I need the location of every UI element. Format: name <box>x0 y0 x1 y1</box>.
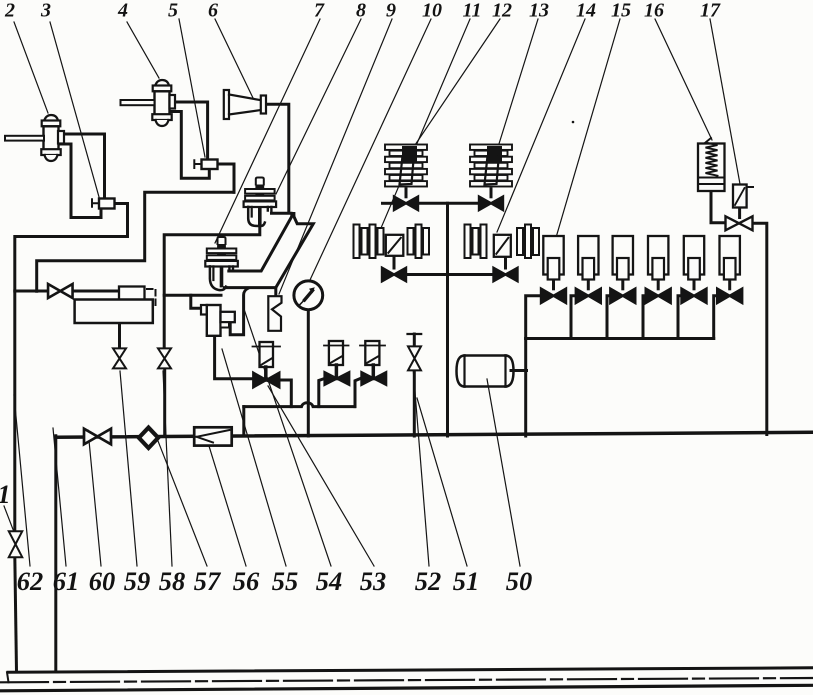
wire cylinder15-3 stem <box>621 279 624 289</box>
reservoir 50 <box>457 356 514 387</box>
wire valve55 drain drop <box>355 379 360 407</box>
pressure regulator 7 <box>205 237 238 290</box>
wire Z-step into block <box>191 295 207 308</box>
svg-text:14: 14 <box>576 0 596 22</box>
wire valve3 output right and down <box>15 204 128 532</box>
air filter 4 <box>121 80 176 126</box>
valve below pump 13 <box>479 197 491 211</box>
leader line 12 <box>413 19 500 148</box>
wire stack valves connector <box>418 202 479 205</box>
leader line 57 <box>158 441 207 566</box>
wire valve15-4 link to drop <box>643 296 646 339</box>
leader line 59 <box>120 371 137 566</box>
wire filter2 drain loop to valve3 bottom <box>60 144 101 218</box>
shut-off valve 60 <box>84 429 98 445</box>
intake horn 6 <box>224 90 266 119</box>
svg-text:62: 62 <box>17 566 44 596</box>
shut-off valve 62 <box>48 284 60 298</box>
leader line 60 <box>88 430 101 566</box>
leader line 1 <box>4 506 14 532</box>
filter 57 <box>136 425 161 452</box>
leader line 17 <box>710 19 740 184</box>
wire box17 stem <box>738 208 741 218</box>
svg-text:59: 59 <box>124 566 151 596</box>
wire tank outlet <box>511 369 527 372</box>
valve below compressor 11 <box>382 268 394 282</box>
valve below compressor 14 <box>494 268 506 282</box>
control valve 17 <box>733 185 747 208</box>
stray dot <box>572 121 575 124</box>
wire valve62 to box61 <box>73 290 120 293</box>
drain valve 58 <box>158 348 171 358</box>
pressure gauge 10 <box>294 281 323 310</box>
wire filter2 outlet to valve3 top <box>64 134 105 199</box>
wire filter4 drain loop to valve5 bottom <box>171 112 209 179</box>
grease valve 15-3 <box>610 289 623 304</box>
grease cylinder 15-1 <box>543 236 563 280</box>
leader line 13 <box>498 19 538 147</box>
wire box61 stem to valve59 <box>118 323 121 349</box>
svg-text:53: 53 <box>360 566 387 596</box>
svg-text:12: 12 <box>492 0 512 22</box>
feed valve 55b <box>360 341 386 385</box>
feed valve 53 <box>253 342 281 387</box>
wire left main line lower segment <box>15 556 17 672</box>
leader line 8 <box>276 19 361 194</box>
wire valve52 lower stem to bus <box>413 370 416 436</box>
leader line 7 <box>215 19 320 243</box>
leader line 9 <box>279 19 392 294</box>
wire cyl11 stem <box>393 256 396 268</box>
leader line 61 <box>53 428 66 566</box>
wire cylinder15-2 stem <box>587 279 590 289</box>
wire valve15-6 link to drop <box>714 296 718 339</box>
grease cylinder 15-3 <box>613 236 633 280</box>
rail top line <box>8 668 813 673</box>
svg-text:1: 1 <box>0 480 11 509</box>
svg-text:3: 3 <box>40 0 51 22</box>
svg-text:11: 11 <box>463 0 482 22</box>
leader line 14 <box>497 19 585 232</box>
grease valve 15-5 <box>682 289 695 304</box>
wire cylinder valves connector <box>406 273 494 276</box>
svg-text:8: 8 <box>356 0 366 22</box>
spring regulator 16 <box>698 138 725 191</box>
wire row manifold bus <box>526 337 714 340</box>
leader line 62 <box>14 395 30 566</box>
grease cylinder 15-2 <box>578 236 598 280</box>
valve below pump 12 <box>394 197 406 211</box>
leader line 6 <box>215 19 253 98</box>
svg-text:58: 58 <box>159 566 186 596</box>
leader line 53 <box>268 386 374 566</box>
wire main bottom bus <box>56 432 813 437</box>
wire y287 link to bracket top <box>225 288 276 295</box>
svg-text:60: 60 <box>89 566 116 596</box>
wire valve15-1 link to drop <box>526 296 541 339</box>
drain valve 52 <box>408 346 421 358</box>
brake valve block 55 <box>201 305 235 336</box>
svg-text:51: 51 <box>453 566 480 596</box>
svg-text:54: 54 <box>316 566 343 596</box>
rail middle dash line <box>0 678 813 682</box>
wire regulator8 stem down C-frame to block <box>164 226 260 295</box>
grease cylinder 15-4 <box>648 236 668 280</box>
wire cyl14 stem <box>504 258 507 269</box>
grease valve 15-2 <box>576 289 589 304</box>
stub left of stack valve <box>383 202 395 205</box>
svg-text:56: 56 <box>233 566 260 596</box>
wire valve58 lower stem <box>163 368 166 436</box>
feed valve 54 <box>324 341 349 385</box>
wire valve15-5 link to drop <box>678 296 682 339</box>
svg-text:2: 2 <box>4 0 15 22</box>
wire gauge drain down <box>307 310 310 436</box>
svg-text:52: 52 <box>415 566 442 596</box>
rail bottom line <box>0 685 813 691</box>
svg-text:61: 61 <box>53 566 80 596</box>
lubricator 56 <box>194 427 232 445</box>
lubricator box 61 <box>75 287 156 324</box>
shut-off valve below 17 <box>726 216 740 230</box>
wire y406 bus left end down <box>242 407 245 436</box>
leader line 2 <box>14 22 48 113</box>
leader line 58 <box>163 371 172 566</box>
svg-text:15: 15 <box>611 0 631 22</box>
leader line 3 <box>50 22 99 197</box>
reducing valve 5 <box>194 160 217 170</box>
wire valve5 output <box>218 164 235 192</box>
leader line 10 <box>310 19 431 280</box>
wire row manifold left vertical <box>524 339 527 437</box>
leader line 51 <box>417 398 467 566</box>
grease valve 15-4 <box>646 289 659 304</box>
svg-text:55: 55 <box>272 566 299 596</box>
wire bus left corner down to rail <box>54 436 57 671</box>
wire cylinder15-1 stem <box>552 279 555 289</box>
wire stack13 stem <box>490 189 493 197</box>
grease cylinder 15-5 <box>684 236 704 280</box>
compressor 14 <box>465 225 540 259</box>
svg-text:17: 17 <box>700 0 721 22</box>
svg-text:16: 16 <box>644 0 664 22</box>
finned pump 12 <box>385 145 427 187</box>
wire device16 down to valve17 <box>711 191 727 223</box>
leader line 50 <box>487 379 520 566</box>
wire valve58 upper stem <box>163 295 166 348</box>
stub box17 top <box>747 186 754 188</box>
wire cylinder15-5 stem <box>693 279 696 289</box>
wire block drain to valve53 <box>215 336 253 379</box>
svg-text:10: 10 <box>422 0 442 22</box>
wire valve15-3 link to drop <box>607 296 610 339</box>
wire stack12 stem <box>405 189 408 197</box>
wire main trunk vertical <box>446 203 449 436</box>
svg-text:7: 7 <box>314 0 325 22</box>
grease cylinder 15-6 <box>720 236 740 280</box>
wire valve15-2 link to drop <box>571 296 576 339</box>
svg-text:6: 6 <box>208 0 218 22</box>
grease valve 15-6 <box>717 289 730 304</box>
leader line 52 <box>413 367 429 566</box>
drain valve 1 <box>9 531 23 544</box>
wire cylinder15-4 stem <box>657 279 660 289</box>
relief bracket 9 <box>268 296 281 331</box>
finned pump 13 <box>470 145 512 187</box>
svg-text:13: 13 <box>529 0 549 22</box>
wire branch y291 left <box>15 290 48 293</box>
wire y406 drain bus with hop <box>244 403 355 407</box>
wire y192 line down to valve62 branch <box>37 192 234 291</box>
reducing valve 3 <box>92 199 115 209</box>
leader line 15 <box>555 19 620 241</box>
wire drain channel hook <box>230 289 247 335</box>
wire regulator8 outlet <box>272 212 292 215</box>
air filter 2 <box>5 115 64 161</box>
leader line 16 <box>655 19 712 140</box>
compressor 11 <box>354 225 430 259</box>
grease valve 15-1 <box>541 289 554 304</box>
leader line 55 <box>222 349 286 566</box>
wire valve17 right to right main <box>752 223 767 434</box>
pressure regulator 8 <box>244 178 277 227</box>
tick valve52 stem top <box>408 333 422 335</box>
wire junction diagonal to regulator7 outlet <box>229 216 292 271</box>
leader line 11 <box>381 19 470 228</box>
svg-text:9: 9 <box>386 0 396 22</box>
junction node <box>290 212 295 217</box>
svg-text:5: 5 <box>168 0 178 22</box>
wire valve53 output down <box>280 380 292 407</box>
wire horn outlet down <box>266 104 289 212</box>
svg-text:4: 4 <box>117 0 128 22</box>
rail left cap <box>7 672 9 682</box>
wire cylinder15-6 stem <box>728 279 731 289</box>
leader line 4 <box>127 22 159 78</box>
leader line 56 <box>209 446 246 566</box>
leader line 5 <box>179 19 205 157</box>
wire filter4 outlet to valve5 top <box>175 102 208 160</box>
wire junction to right elbow and diagonal to bracket <box>276 215 314 288</box>
leader line 54 <box>244 309 331 566</box>
wire valve52 upper stem <box>413 334 416 347</box>
wire valve54 drain drop <box>319 379 325 407</box>
svg-text:57: 57 <box>194 566 222 596</box>
drain valve 59 <box>113 348 126 358</box>
svg-text:50: 50 <box>506 566 533 596</box>
